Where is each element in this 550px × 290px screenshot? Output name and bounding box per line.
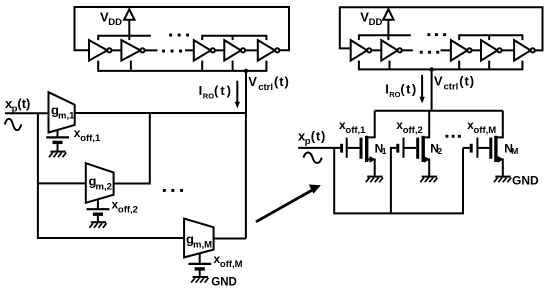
svg-text:ctrl: ctrl bbox=[258, 82, 273, 93]
VDD label (left) bbox=[100, 10, 122, 29]
svg-text:I: I bbox=[199, 83, 203, 98]
gmM label bbox=[186, 232, 212, 251]
bottom supply rail (left osc) bbox=[98, 61, 266, 71]
offset source battery xoff2 bbox=[87, 199, 110, 221]
svg-text:off,1: off,1 bbox=[80, 133, 101, 144]
wire U9 out to U10 in bbox=[502, 49, 514, 51]
top supply rail (right) bbox=[359, 35, 523, 40]
xoff1 label (left) bbox=[74, 126, 101, 144]
svg-text:off,2: off,2 bbox=[403, 125, 423, 136]
wire U2 out stub bbox=[145, 49, 158, 51]
ellipsis dots between N2 and NM bbox=[446, 135, 461, 138]
inverter U3 (left osc) bbox=[194, 40, 215, 61]
inverter U8 (right osc) bbox=[451, 40, 472, 61]
svg-text:V: V bbox=[434, 74, 443, 89]
wire gate bus (right) bbox=[334, 148, 463, 214]
svg-text:(t): (t) bbox=[214, 83, 233, 98]
svg-text:V: V bbox=[248, 74, 257, 89]
wire Vctrl down to drain bus (right) bbox=[431, 69, 433, 110]
IRO(t) label (left) bbox=[199, 83, 233, 100]
wire into U8 bbox=[441, 49, 451, 51]
wire into U3 bbox=[185, 49, 194, 51]
offset source battery xoff1 bbox=[46, 130, 69, 151]
gm2 label bbox=[89, 174, 112, 193]
N2 label bbox=[430, 142, 442, 157]
offset battery xoffM (NM gate) bbox=[471, 138, 489, 158]
ground (NM earth) bbox=[494, 177, 511, 183]
node Vctrl junction dot (left) bbox=[244, 69, 248, 73]
IRO(t) label (right) bbox=[385, 82, 417, 99]
VDD label (right) bbox=[360, 10, 382, 29]
left oscillator feedback loop wire bbox=[75, 7, 290, 50]
offset battery xoff2 (N2 gate) bbox=[398, 138, 416, 158]
wire riser to NM gate bbox=[463, 147, 470, 149]
xoff2 label (right) bbox=[396, 118, 422, 136]
ellipsis dots top rail (right) bbox=[427, 33, 446, 36]
xoffM label (right) bbox=[467, 118, 496, 136]
svg-text:off,M: off,M bbox=[474, 125, 497, 136]
wire U7 out stub bbox=[402, 49, 413, 51]
wire input bus vertical (left) bbox=[38, 113, 184, 238]
wire xp input to gm1 bbox=[5, 112, 49, 114]
svg-text:off,M: off,M bbox=[220, 259, 243, 270]
ground (N1 earth) bbox=[366, 177, 383, 183]
inverter U6 (right osc) bbox=[351, 40, 372, 61]
wire gm1 output bbox=[75, 112, 246, 114]
bottom supply rail (right osc) bbox=[359, 61, 523, 70]
svg-text:m,M: m,M bbox=[193, 239, 212, 250]
wire U4 out to U5 in bbox=[245, 49, 258, 51]
svg-text:M: M bbox=[511, 146, 518, 156]
IRO current arrow (left) bbox=[235, 81, 240, 109]
ground (N2 earth) bbox=[420, 177, 437, 183]
wire U8 out to U9 in bbox=[472, 49, 481, 51]
svg-text:off,2: off,2 bbox=[118, 204, 138, 215]
ellipsis dots signal path (right) bbox=[420, 51, 439, 54]
VDD supply symbol (left) bbox=[124, 9, 134, 40]
inverter U7 (right osc) bbox=[381, 40, 402, 61]
transconductor gm1 bbox=[49, 92, 75, 132]
svg-text:(t): (t) bbox=[274, 74, 290, 89]
Vctrl(t) label (right) bbox=[434, 74, 475, 93]
ground (gmM earth) bbox=[191, 277, 208, 283]
svg-text:DD: DD bbox=[369, 17, 383, 28]
ellipsis dots signal path (left) bbox=[162, 50, 182, 53]
svg-text:m,1: m,1 bbox=[58, 110, 75, 121]
transconductor gmM bbox=[184, 219, 214, 258]
transconductor gm2 bbox=[86, 163, 114, 203]
wire gmM output to right bus bbox=[214, 238, 246, 240]
transistor N2 bbox=[418, 111, 430, 176]
transistor NM bbox=[491, 111, 504, 176]
NM label bbox=[504, 142, 518, 157]
Vctrl(t) label (left) bbox=[248, 74, 289, 93]
wire gm2 output up to gm1 output bbox=[114, 113, 150, 184]
wire riser to N2 gate bbox=[391, 148, 397, 214]
svg-text:1: 1 bbox=[382, 146, 387, 156]
inverter U4 (left osc) bbox=[224, 40, 245, 61]
svg-text:(t): (t) bbox=[311, 129, 326, 144]
wire U6 out to U7 in bbox=[371, 49, 381, 51]
GND label (left) bbox=[211, 276, 237, 288]
svg-text:RO: RO bbox=[389, 90, 400, 99]
inverter U5 (left osc) bbox=[258, 40, 280, 61]
right oscillator feedback loop wire bbox=[340, 7, 543, 50]
svg-text:m,2: m,2 bbox=[96, 181, 112, 192]
wire gm output bus vertical (right side of left circuit) bbox=[245, 113, 247, 239]
svg-text:(t): (t) bbox=[459, 74, 475, 89]
offset battery xoff1 (N1 gate) bbox=[342, 138, 360, 158]
svg-text:DD: DD bbox=[108, 17, 122, 28]
GND label (right) bbox=[512, 174, 539, 188]
wire U1 out to U2 in bbox=[112, 49, 122, 51]
ellipsis dots top rail (left) bbox=[169, 34, 189, 37]
offset source battery xoffM bbox=[188, 253, 211, 276]
inverter U9 (right osc) bbox=[481, 40, 502, 61]
IRO current arrow (right) bbox=[419, 75, 424, 104]
ground (gm2 earth) bbox=[89, 222, 106, 228]
input source sine symbol (left) bbox=[5, 119, 21, 130]
xoff1 label (right) bbox=[339, 118, 366, 136]
wire drain bus (right circuit) bbox=[375, 110, 503, 112]
wire branch to gm2 input bbox=[38, 182, 86, 184]
xoffM label (left) bbox=[214, 252, 243, 270]
ellipsis dots between gm2 and gmM bbox=[163, 189, 183, 192]
VDD supply symbol (right) bbox=[383, 9, 393, 40]
transistor N1 bbox=[361, 111, 375, 176]
node Vctrl junction dot (right) bbox=[429, 67, 433, 71]
wire U3 out to U4 in bbox=[215, 49, 224, 51]
gm1 label bbox=[51, 103, 75, 122]
svg-text:off,1: off,1 bbox=[345, 125, 366, 136]
wire xp input (right) bbox=[298, 147, 340, 149]
top supply rail (left) bbox=[98, 36, 266, 40]
input source sine symbol (right) bbox=[303, 152, 321, 163]
ground (gm1 earth) bbox=[49, 152, 66, 158]
svg-text:GND: GND bbox=[211, 276, 237, 288]
N1 label bbox=[375, 142, 387, 157]
svg-text:2: 2 bbox=[437, 146, 442, 156]
equivalence arrow bbox=[256, 185, 321, 222]
svg-text:(t): (t) bbox=[400, 82, 417, 97]
svg-text:GND: GND bbox=[512, 174, 539, 188]
inverter U2 (left osc) bbox=[121, 40, 144, 61]
svg-text:(t): (t) bbox=[17, 96, 30, 111]
inverter U1 (left osc) bbox=[89, 40, 112, 61]
inverter U10 (right osc) bbox=[514, 40, 535, 61]
xp(t) label (left) bbox=[5, 96, 30, 115]
svg-text:ctrl: ctrl bbox=[444, 81, 459, 92]
svg-text:RO: RO bbox=[203, 91, 214, 100]
wire Vctrl down to gm output bus (left) bbox=[245, 71, 247, 113]
xp(t) label (right) bbox=[298, 129, 326, 148]
xoff2 label (left) bbox=[112, 197, 138, 215]
